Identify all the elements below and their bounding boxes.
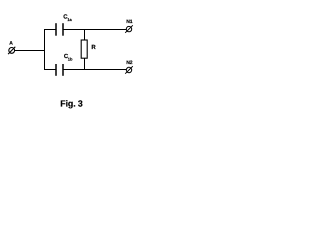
wire junction to C1b left plate: [44, 69, 56, 71]
wire junction vertical: [44, 29, 46, 70]
capacitor C1b: [56, 64, 63, 76]
svg-text:N2: N2: [126, 60, 133, 66]
wire A to junction: [15, 50, 45, 52]
wire C1a to N1: [63, 29, 126, 31]
resistor R: [81, 40, 87, 58]
svg-text:1a: 1a: [67, 17, 72, 22]
terminal N2: [125, 66, 133, 74]
wire junction to C1a left plate: [44, 29, 56, 31]
terminal N1: [125, 25, 133, 33]
wire C1b to N2: [63, 69, 126, 71]
svg-text:N1: N1: [126, 19, 133, 25]
terminal A: [8, 47, 15, 54]
capacitor C1a: [56, 23, 63, 36]
svg-text:R: R: [91, 44, 96, 51]
wire R bottom stub: [84, 58, 86, 70]
wire R top stub: [84, 29, 86, 41]
svg-text:A: A: [9, 41, 13, 47]
label C1a: [63, 13, 72, 22]
svg-text:1b: 1b: [68, 57, 73, 62]
svg-text:Fig. 3: Fig. 3: [60, 98, 83, 108]
label C1b: [64, 53, 73, 62]
